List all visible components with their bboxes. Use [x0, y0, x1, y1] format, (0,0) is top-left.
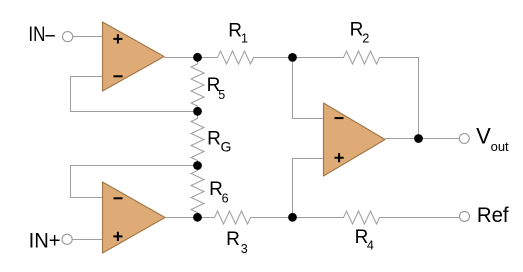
svg-text:R: R: [226, 229, 240, 250]
svg-text:5: 5: [218, 88, 225, 102]
svg-text:R: R: [228, 21, 242, 42]
svg-text:Ref: Ref: [477, 203, 509, 227]
svg-text:IN+: IN+: [29, 229, 61, 253]
svg-text:1: 1: [241, 32, 248, 46]
svg-text:G: G: [221, 139, 232, 155]
svg-text:V: V: [476, 124, 491, 149]
svg-text:R: R: [207, 129, 221, 150]
svg-text:R: R: [350, 20, 364, 41]
svg-text:6: 6: [222, 191, 229, 205]
svg-text:out: out: [491, 139, 509, 154]
svg-text:IN–: IN–: [28, 22, 55, 46]
svg-text:4: 4: [367, 239, 374, 253]
svg-text:3: 3: [241, 242, 248, 256]
svg-text:2: 2: [362, 31, 369, 45]
